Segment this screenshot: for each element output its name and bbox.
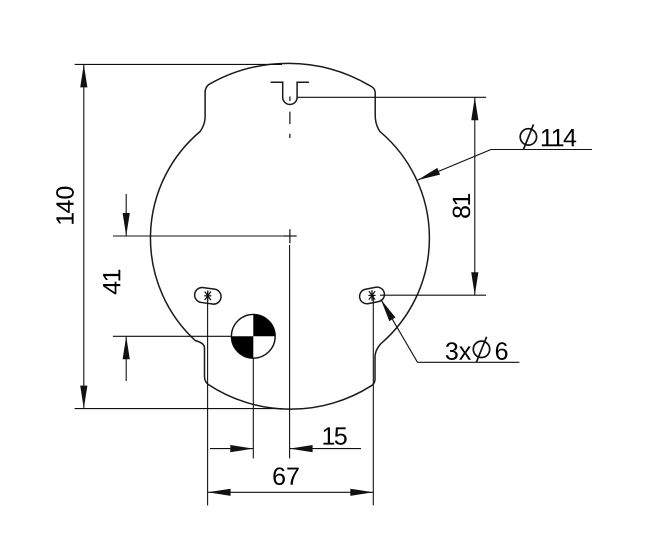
dia 114 text	[542, 129, 576, 146]
dim 67 text	[273, 467, 298, 485]
dim 81 extension line top (from keyhole)	[297, 96, 486, 98]
dim 81 dimension line	[474, 97, 476, 295]
dim 15 dimension line + outside arrows	[210, 448, 253, 450]
dim 81 text	[453, 194, 471, 218]
dim 41 dimension line + outside arrows	[125, 194, 127, 236]
keyhole centreline dashes	[289, 97, 291, 102]
left hole asterisk mark	[204, 290, 211, 301]
dim 67 extension line right (from right hole)	[372, 296, 374, 505]
dim 140 extension line top	[75, 63, 282, 65]
dim 15 text	[323, 427, 346, 444]
dia 114 symbol	[520, 129, 536, 145]
left slotted hole 6mm	[194, 287, 222, 306]
dim 15 extension line right (from centre)	[289, 245, 291, 458]
dim 140 text	[56, 187, 74, 224]
dim 67 dimension line	[208, 491, 374, 493]
dim 41 extension line bottom (to cg circle)	[113, 335, 231, 337]
dim 140 dimension line	[83, 64, 85, 408]
dim 41 extension line top (through centre)	[113, 235, 283, 237]
dim 140 extension line bottom	[75, 408, 283, 410]
right hole asterisk mark	[368, 290, 375, 301]
centre cross	[283, 235, 297, 237]
dim 15 extension line left (from cg)	[252, 358, 254, 458]
centre of gravity symbol	[231, 314, 275, 358]
dia 114 leader	[418, 150, 492, 181]
keyhole slot	[271, 82, 309, 104]
right slotted hole 6mm	[358, 286, 385, 305]
dia symbol	[473, 341, 489, 357]
3x dia 6 leader	[381, 299, 418, 362]
plate outline	[150, 63, 429, 409]
dim 67 extension line left (from left hole)	[207, 292, 209, 505]
dim 41 text	[103, 270, 120, 295]
3x dia 6 text	[446, 342, 471, 360]
dim 81 extension line bottom (from right hole)	[380, 294, 486, 296]
